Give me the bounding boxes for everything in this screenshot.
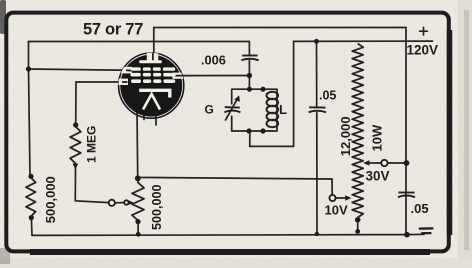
svg-text:.05: .05 [411, 201, 429, 216]
svg-text:10W: 10W [370, 124, 385, 151]
svg-text:12,000: 12,000 [338, 116, 353, 156]
svg-text:57 or 77: 57 or 77 [83, 20, 143, 38]
svg-text:30V: 30V [366, 169, 390, 184]
svg-text:G: G [205, 103, 214, 117]
svg-text:1 MEG: 1 MEG [85, 126, 99, 163]
svg-text:10V: 10V [325, 203, 348, 218]
svg-text:L: L [279, 102, 287, 117]
svg-text:500,000: 500,000 [150, 184, 164, 230]
svg-text:500,000: 500,000 [43, 176, 58, 223]
svg-text:120V: 120V [407, 43, 439, 58]
svg-text:.05: .05 [319, 88, 336, 102]
svg-text:.006: .006 [201, 53, 226, 68]
